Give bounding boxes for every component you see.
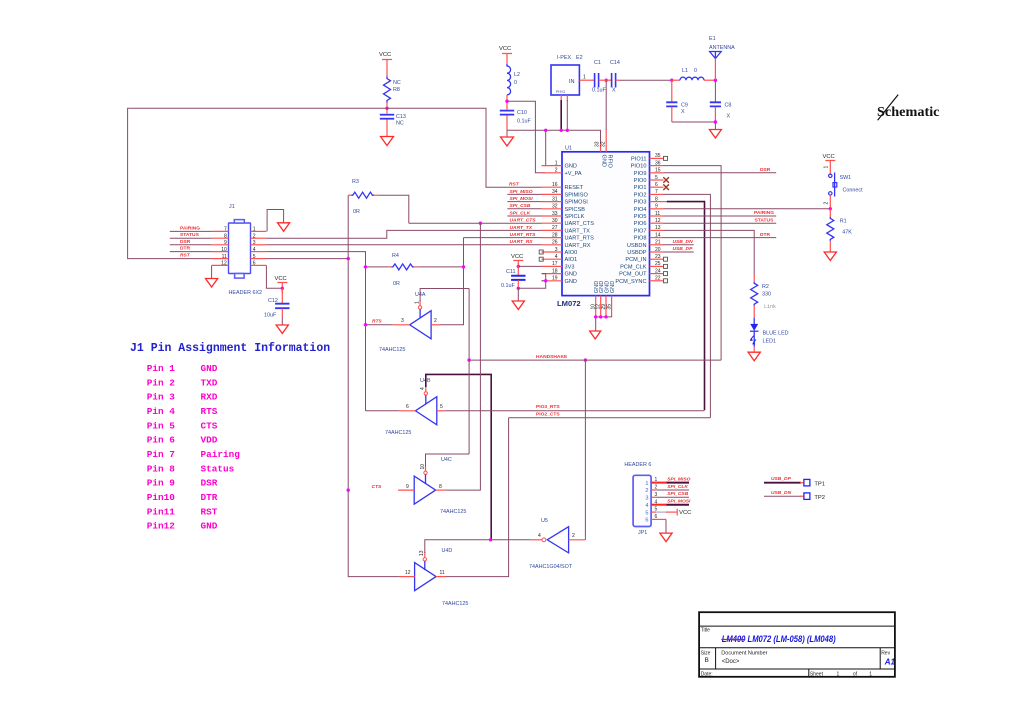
svg-text:CTS: CTS <box>372 484 383 490</box>
svg-text:74AHC1G04/SOT: 74AHC1G04/SOT <box>529 564 573 570</box>
svg-text:RXD: RXD <box>201 392 218 403</box>
svg-text:+V_PA: +V_PA <box>565 171 582 177</box>
wire R3 right to UART_CTS <box>378 195 409 223</box>
svg-text:5: 5 <box>253 254 256 260</box>
svg-text:USB_DN: USB_DN <box>771 490 792 496</box>
svg-text:6: 6 <box>655 182 658 188</box>
pin 32 (SPICSB) of U1 <box>542 204 586 213</box>
svg-text:Pin 9: Pin 9 <box>147 478 176 489</box>
node VCC/3V3 junction <box>517 265 520 268</box>
resistor R3 <box>348 179 378 215</box>
pin 13 (PIO7) of U1 <box>634 225 664 234</box>
ground at J1 pin12 <box>206 279 218 288</box>
pin 34 (SPIMISO) of U1 <box>542 189 589 198</box>
svg-text:NC: NC <box>393 80 401 86</box>
svg-text:36: 36 <box>655 160 661 166</box>
switch SW1 Connect <box>824 166 864 209</box>
svg-text:PHY2: PHY2 <box>556 90 565 94</box>
pin 1 of E2 <box>579 75 592 81</box>
svg-text:74AHC125: 74AHC125 <box>385 430 411 436</box>
svg-text:11: 11 <box>222 254 227 260</box>
svg-text:E2: E2 <box>576 55 583 61</box>
svg-text:C1: C1 <box>594 60 601 66</box>
svg-text:27: 27 <box>552 225 558 231</box>
svg-text:9: 9 <box>406 484 409 490</box>
svg-text:NC: NC <box>396 121 404 127</box>
svg-text:5: 5 <box>645 510 648 516</box>
pin 24 (PCM_OUT) of U1 <box>619 268 663 277</box>
svg-text:23: 23 <box>655 254 661 260</box>
wire PIO3 down to PIO3_RTS row (dark) <box>664 202 705 411</box>
wire junction to ground <box>714 122 716 130</box>
svg-text:PAIRING: PAIRING <box>754 210 774 216</box>
pin 7 (PIO2) of U1 <box>634 189 664 198</box>
svg-text:2: 2 <box>572 533 575 539</box>
svg-text:Schematic: Schematic <box>877 104 940 119</box>
svg-text:UART_RTS: UART_RTS <box>565 236 595 242</box>
svg-text:IN: IN <box>569 79 575 85</box>
svg-text:SPIMISO: SPIMISO <box>565 192 589 198</box>
title block border <box>699 612 895 677</box>
wire USB_DN (USBDN) <box>664 239 694 245</box>
node C8 bottom junction <box>714 120 717 123</box>
svg-text:C11: C11 <box>506 269 516 275</box>
svg-text:PIO9: PIO9 <box>634 171 647 177</box>
svg-text:2: 2 <box>434 318 437 324</box>
pin 5 of JP1 <box>645 507 657 517</box>
svg-text:12: 12 <box>655 218 661 224</box>
svg-text:34: 34 <box>552 189 558 195</box>
svg-text:Link: Link <box>764 304 776 310</box>
svg-text:1: 1 <box>869 671 872 677</box>
wire E2 left shield pin to GND rail <box>560 95 563 132</box>
svg-text:SPI_CSB: SPI_CSB <box>667 491 688 497</box>
pin 4 (AIO1) of U1 <box>542 254 578 263</box>
svg-text:C8: C8 <box>725 103 732 109</box>
net label STATUS (J1) <box>170 232 212 238</box>
svg-text:HANDSHAKE: HANDSHAKE <box>536 354 568 360</box>
svg-text:47K: 47K <box>842 230 852 236</box>
svg-text:31: 31 <box>552 196 558 202</box>
wire UART_TX with jog to J1 TXD row <box>266 225 541 238</box>
svg-text:I-PEX: I-PEX <box>557 55 571 61</box>
wire SPI_MOSI <box>507 196 541 202</box>
svg-text:LM072: LM072 <box>557 299 581 308</box>
wire RST net from R8 junction to U1 RESET pin <box>387 108 542 187</box>
svg-text:DSR: DSR <box>201 478 218 489</box>
svg-text:U1: U1 <box>565 145 572 151</box>
wire PIO4 to SW1 junction <box>664 208 831 210</box>
op-amp U4A buffer 74AHC125 <box>372 292 440 353</box>
svg-text:15: 15 <box>655 168 661 174</box>
title block Title field <box>701 628 836 646</box>
svg-text:330: 330 <box>762 292 771 298</box>
svg-text:UART_RX: UART_RX <box>510 239 534 245</box>
svg-text:BLUE LED: BLUE LED <box>763 331 789 337</box>
power VCC (R8) <box>379 52 392 77</box>
svg-text:17: 17 <box>552 261 558 267</box>
wire C10 ground drop <box>506 130 508 137</box>
svg-text:4: 4 <box>253 247 256 253</box>
capacitor C8 <box>710 80 732 122</box>
ground below LED1 <box>748 352 760 361</box>
svg-text:0R: 0R <box>393 281 400 287</box>
node GND bus junction x=595.7 <box>594 315 597 318</box>
op-amp U5 inverter 74AHC1G04 <box>491 518 586 570</box>
wire +V_PA junction to U1 pin2 <box>507 101 545 173</box>
pin 20 (USBDP) of U1 <box>627 247 663 256</box>
no-connect X pin 6 of U1 <box>663 184 669 190</box>
wire C11 bottom to U1 pins 18/19 <box>518 274 545 289</box>
wire UART_RTS vertical (R4 right / U4A pin2) <box>418 238 463 325</box>
node junction U4D enable / U5 output <box>489 538 492 541</box>
wire SPI_CSB (JP1 pin3) <box>651 491 689 497</box>
wire C14 to L1 <box>619 79 672 81</box>
svg-text:E1: E1 <box>709 36 716 42</box>
svg-text:VCC: VCC <box>823 154 835 160</box>
svg-text:Pin11: Pin11 <box>147 506 176 517</box>
wire R8 to C13 <box>386 103 388 114</box>
svg-text:PCM_CLK: PCM_CLK <box>620 264 647 270</box>
svg-text:PIO6: PIO6 <box>634 221 647 227</box>
no-connect square pin 24 of U1 <box>664 272 668 276</box>
svg-text:Size: Size <box>701 651 711 657</box>
no-connect square pin 25 of U1 <box>664 264 668 268</box>
svg-text:5: 5 <box>655 175 658 181</box>
svg-text:18: 18 <box>552 268 558 274</box>
svg-text:TXD: TXD <box>201 377 218 388</box>
pin 6 (PIO1) of U1 <box>634 182 664 191</box>
title block Date/Sheet row <box>701 671 873 677</box>
svg-text:74AHC125: 74AHC125 <box>440 509 466 515</box>
svg-text:GND: GND <box>201 363 218 374</box>
svg-text:PIO11: PIO11 <box>631 156 646 162</box>
pin 4 of JP1 <box>645 499 657 509</box>
node RFIO junction between C1/C14 <box>605 79 608 82</box>
pin 6 of JP1 <box>645 514 657 524</box>
svg-text:Pin12: Pin12 <box>147 521 176 532</box>
svg-text:1: 1 <box>824 166 830 169</box>
antenna E1 <box>709 36 735 80</box>
pin 17 (3V3) of U1 <box>542 261 575 270</box>
svg-text:Date:: Date: <box>701 671 713 677</box>
pin 3 of J1 <box>251 240 267 246</box>
svg-text:UART_CTS: UART_CTS <box>510 218 537 224</box>
svg-text:USBDN: USBDN <box>627 243 647 249</box>
svg-text:RESET: RESET <box>565 185 584 191</box>
svg-text:32: 32 <box>552 204 558 210</box>
svg-text:USB_DN: USB_DN <box>673 239 694 245</box>
pin 18 (GND) of U1 <box>542 268 577 277</box>
net label DTR (J1) <box>170 246 212 252</box>
svg-text:8: 8 <box>655 196 658 202</box>
svg-text:RTS: RTS <box>201 406 218 417</box>
pin 5 (PIO0) of U1 <box>634 175 664 184</box>
svg-text:0: 0 <box>694 68 697 74</box>
connector JP1 HEADER 6 body <box>624 462 651 536</box>
annotation Schematic title <box>877 95 940 121</box>
svg-text:3V3: 3V3 <box>565 264 575 270</box>
svg-text:21: 21 <box>655 240 661 246</box>
svg-text:GND: GND <box>565 272 577 278</box>
svg-text:10uF: 10uF <box>264 313 277 319</box>
power VCC (C11) <box>511 254 523 267</box>
wire U4B enable (dark) to U4D enable row <box>425 386 427 392</box>
pin 10 of J1 <box>212 247 229 253</box>
svg-text:VCC: VCC <box>511 254 523 260</box>
test point TP1 USB_DP <box>764 476 825 487</box>
ground below C13 <box>381 137 394 146</box>
wire PIO7 to R2 vertical <box>664 230 755 274</box>
svg-text:35: 35 <box>606 304 612 310</box>
ground below U1 <box>590 331 601 339</box>
svg-text:20: 20 <box>655 247 661 253</box>
wire SPI_MISO <box>507 189 541 195</box>
svg-text:Pin 2: Pin 2 <box>147 377 176 388</box>
node RTS junction at U4A output <box>364 323 367 326</box>
svg-text:0.1uF: 0.1uF <box>501 283 515 289</box>
svg-text:HEADER 6X2: HEADER 6X2 <box>229 290 263 296</box>
wire GND rail to U1 top pin <box>507 130 601 144</box>
svg-text:RTS: RTS <box>372 319 382 325</box>
svg-text:L2: L2 <box>514 72 520 78</box>
node GND bus junction x=600.7 <box>599 315 602 318</box>
svg-text:SPICSB: SPICSB <box>565 207 586 213</box>
svg-text:SPIMOSI: SPIMOSI <box>565 200 589 206</box>
svg-text:PIO4: PIO4 <box>634 207 647 213</box>
no-connect square pin 3 AIO0 <box>539 250 543 254</box>
svg-text:10: 10 <box>221 247 227 253</box>
svg-text:AIO0: AIO0 <box>565 250 578 256</box>
title block Size field <box>701 651 711 665</box>
pin 8 (PIO3) of U1 <box>634 196 664 205</box>
pin 31 (SPIMOSI) of U1 <box>542 196 589 205</box>
svg-text:33: 33 <box>552 211 558 217</box>
svg-text:12: 12 <box>221 261 227 267</box>
pin 5 of J1 <box>251 254 267 260</box>
node junction pin19 <box>544 279 547 282</box>
svg-text:PIO3: PIO3 <box>634 200 647 206</box>
resistor R8 <box>384 77 401 103</box>
svg-text:DTR: DTR <box>201 492 218 503</box>
svg-text:3: 3 <box>253 240 256 246</box>
svg-text:VCC: VCC <box>379 52 391 58</box>
wire SPI_MISO (JP1 pin1) <box>651 476 690 482</box>
svg-text:UART_TX: UART_TX <box>565 228 591 234</box>
svg-text:7: 7 <box>655 189 658 195</box>
wire RFIO junction down to U1 RFIO pin <box>605 80 607 144</box>
wire U1 bottom GND bus <box>596 316 612 331</box>
svg-text:DSR: DSR <box>760 167 771 173</box>
svg-text:VCC: VCC <box>679 510 691 516</box>
pin 28 (UART_RTS) of U1 <box>542 232 595 241</box>
pin 12 (PIO6) of U1 <box>634 218 664 227</box>
pin 1 (GND) of U1 <box>542 160 577 169</box>
svg-text:TP2: TP2 <box>814 495 825 501</box>
svg-text:PCM_OUT: PCM_OUT <box>619 272 647 278</box>
ground below C12 <box>276 325 288 334</box>
svg-text:74AHC125: 74AHC125 <box>442 601 468 607</box>
svg-text:Pin 4: Pin 4 <box>147 406 176 417</box>
pin 8 of J1 <box>212 233 229 239</box>
svg-text:J1: J1 <box>229 204 235 210</box>
pin GND (bottom 2) of U1 <box>596 281 606 317</box>
svg-text:DSR: DSR <box>180 239 191 245</box>
wire J1 pin1 to ground <box>267 210 284 232</box>
wire SPI_CLK (JP1 pin2) <box>651 484 689 490</box>
pin 2 of J1 <box>251 233 267 239</box>
no-connect square pin 4 AIO1 <box>539 257 543 261</box>
pin 11 (PIO5) of U1 <box>634 211 664 220</box>
svg-text:PIO1: PIO1 <box>634 185 647 191</box>
svg-text:STATUS: STATUS <box>180 232 200 238</box>
node C12/VCC junction <box>281 287 284 290</box>
pin GND (top) of U1 <box>595 141 607 167</box>
svg-text:2: 2 <box>824 202 830 205</box>
svg-text:B: B <box>705 657 709 664</box>
svg-text:PIO8: PIO8 <box>634 236 647 242</box>
wire USB_DP (USBDP) <box>664 246 694 252</box>
wire PIO10 to HANDSHAKE vertical <box>664 166 722 361</box>
svg-text:22: 22 <box>655 276 661 282</box>
wire U4C pin8 up to UART_CTS <box>446 223 481 490</box>
capacitor C1 <box>592 60 606 94</box>
pin 35 (PIO11) of U1 <box>631 153 663 162</box>
svg-text:SPICLK: SPICLK <box>565 214 585 220</box>
net label PAIRING (J1) <box>170 225 212 231</box>
capacitor C10 <box>500 110 532 125</box>
svg-text:4: 4 <box>555 254 558 260</box>
node C11 bottom junction <box>517 287 520 290</box>
node GND bus junction x=606 <box>604 315 607 318</box>
wire U4A enable to HANDSHAKE vertical <box>419 300 421 306</box>
svg-text:RST: RST <box>201 506 218 517</box>
svg-text:Pairing: Pairing <box>201 449 241 460</box>
svg-text:PCM_SYNC: PCM_SYNC <box>615 279 646 285</box>
svg-text:RFIO: RFIO <box>606 155 612 169</box>
inductor L2 <box>507 64 520 95</box>
svg-text:C10: C10 <box>517 110 527 116</box>
svg-text:C9: C9 <box>681 103 688 109</box>
svg-text:USB_DP: USB_DP <box>673 246 694 252</box>
wire RST net from R8 junction to J1 pin11 row <box>128 108 387 258</box>
svg-text:PIO5: PIO5 <box>634 214 647 220</box>
op-amp U4D buffer 74AHC125 <box>399 548 468 607</box>
svg-text:PIO2: PIO2 <box>634 192 647 198</box>
svg-text:13: 13 <box>655 225 661 231</box>
pin 3 of JP1 <box>645 492 657 502</box>
svg-text:14: 14 <box>655 232 661 238</box>
inductor L1 <box>672 68 716 80</box>
IC U1 LM072 body <box>557 145 650 308</box>
svg-text:A1: A1 <box>884 658 896 667</box>
svg-text:Document Number: Document Number <box>721 651 767 657</box>
svg-text:3: 3 <box>555 247 558 253</box>
svg-text:C12: C12 <box>268 298 278 304</box>
node UART_CTS junction <box>479 222 482 225</box>
svg-text:Rev: Rev <box>881 651 890 657</box>
svg-text:1: 1 <box>583 75 586 81</box>
wire SPI_CLK <box>507 210 541 216</box>
svg-text:PAIRING: PAIRING <box>180 225 200 231</box>
svg-text:0R: 0R <box>353 209 360 215</box>
svg-text:U4C: U4C <box>441 457 452 463</box>
pin 14 (PIO8) of U1 <box>634 232 664 241</box>
svg-text:X: X <box>612 88 616 94</box>
wire U5 pin2 up to HANDSHAKE row <box>584 360 586 540</box>
svg-text:28: 28 <box>552 232 558 238</box>
op-amp U4C buffer 74AHC125 <box>372 457 467 515</box>
wire UART_CTS from R3 <box>409 218 542 224</box>
node HANDSHAKE junction at enable vertical <box>467 358 470 361</box>
wire L2 to C10 <box>506 95 508 110</box>
svg-text:19: 19 <box>552 276 558 282</box>
svg-text:U5: U5 <box>541 518 548 524</box>
svg-text:Pin 5: Pin 5 <box>147 420 176 431</box>
svg-text:PIO3_RTS: PIO3_RTS <box>536 404 560 410</box>
svg-text:Connect: Connect <box>843 188 864 194</box>
node L1/C8/antenna junction <box>714 79 717 82</box>
svg-text:4: 4 <box>538 533 541 539</box>
ground below C11 <box>512 301 524 310</box>
svg-text:26: 26 <box>552 240 558 246</box>
capacitor C12 <box>264 288 290 325</box>
svg-text:AIO1: AIO1 <box>565 257 578 263</box>
svg-text:1: 1 <box>253 227 256 233</box>
power VCC (L2) <box>499 46 512 64</box>
pin 1 of JP1 <box>645 477 657 487</box>
wire SPI_MOSI (JP1 pin4) <box>651 499 691 505</box>
pin 12 of J1 <box>212 261 229 267</box>
svg-text:UART_TX: UART_TX <box>510 225 533 231</box>
ground below R1 <box>824 252 836 261</box>
wire UART_RX long to J1 pin3 <box>266 239 541 245</box>
node CTS junction at J1 pin5 row <box>347 257 350 260</box>
svg-text:0.1uF: 0.1uF <box>517 119 531 125</box>
svg-text:SPI_MOSI: SPI_MOSI <box>667 499 691 505</box>
svg-text:6: 6 <box>406 404 409 410</box>
svg-text:8: 8 <box>224 233 227 239</box>
node junction below L2 <box>505 100 508 103</box>
svg-text:GND: GND <box>201 521 218 532</box>
pin 7 of J1 <box>212 227 229 233</box>
svg-text:32: 32 <box>600 141 606 147</box>
capacitor C9 <box>666 80 688 122</box>
pin 36 (PIO10) of U1 <box>631 160 664 169</box>
svg-text:USB_DP: USB_DP <box>771 476 792 482</box>
svg-text:LED1: LED1 <box>763 339 777 345</box>
svg-text:Status: Status <box>201 463 235 474</box>
resistor R4 <box>388 253 418 287</box>
power VCC (C12) <box>275 276 288 293</box>
wire PIO2 down to PIO2_CTS row <box>664 194 711 417</box>
svg-text:30: 30 <box>552 218 558 224</box>
no-connect square pin 22 of U1 <box>664 279 668 283</box>
svg-text:R1: R1 <box>840 219 847 225</box>
svg-text:PIO10: PIO10 <box>631 164 647 170</box>
pin GND (bottom 4) of U1 <box>606 281 616 317</box>
svg-text:GND: GND <box>565 279 577 285</box>
node PAIRING/SW1/R1 junction <box>829 207 832 210</box>
no-connect square pin 35 of U1 <box>664 156 668 160</box>
no-connect square pin 23 of U1 <box>664 257 668 261</box>
pin 1 of J1 <box>251 227 267 233</box>
wire J1 pin12 to ground <box>211 265 213 278</box>
svg-text:L1: L1 <box>682 68 688 74</box>
svg-text:2: 2 <box>555 168 558 174</box>
connector E2 I-PEX <box>551 55 583 95</box>
pin 23 (PCM_IN) of U1 <box>625 254 663 263</box>
